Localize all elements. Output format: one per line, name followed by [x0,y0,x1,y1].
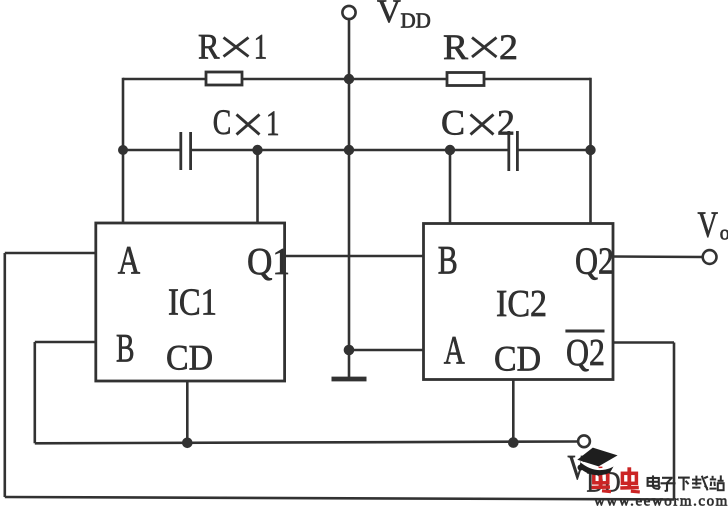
wire Q1 to B [285,255,424,258]
svg-text:2: 2 [499,27,518,67]
wire vertical to IC1 top (x=257) [256,150,259,223]
svg-text:B: B [116,326,135,371]
junction dot above ground [344,345,355,356]
svg-text:IC2: IC2 [496,283,547,325]
ground [332,377,367,382]
resistor RX2 [447,73,484,86]
svg-text:V: V [698,205,719,246]
junction dot cap rail at 450 [445,145,455,155]
watermark text xia (下) [678,478,690,491]
svg-text:2: 2 [497,103,515,143]
watermark chong char 2 [620,467,640,492]
wire outer right vertical [673,343,676,500]
wire B pin IC1 to left [35,341,96,344]
wire control rail [35,442,578,444]
svg-text:CD: CD [166,338,213,378]
junction dot cap rail center [344,145,354,155]
junction dot cap rail left [118,145,128,155]
pin label Q2-bar (IC2) [565,331,605,374]
watermark cap logo [577,448,617,476]
svg-text:1: 1 [254,26,267,66]
resistor RX1 [206,72,242,85]
wire ground stub [348,350,351,377]
wire inner left vertical [33,342,36,443]
label Vo [698,205,728,246]
svg-text:Q1: Q1 [247,241,290,283]
svg-text:C: C [213,102,232,142]
label C×1 [213,102,280,143]
svg-text:1: 1 [266,103,280,143]
svg-text:DD: DD [401,9,431,33]
capacitor CX1 [181,132,191,170]
wire top rail middle segment [242,78,447,81]
watermark text zhan (站) [709,475,723,490]
wire to IC2 A pin [349,349,424,352]
watermark text dian (电) [648,475,660,488]
svg-text:R: R [443,27,468,67]
svg-text:A: A [118,238,140,283]
capacitor CX2 [509,131,518,171]
label R×2 [443,27,518,67]
wire cap rail left segment [123,149,180,152]
junction dot CD1 [182,438,193,449]
wire Q2-bar to outer loop [613,341,674,344]
wire top rail right segment [484,78,591,81]
terminal VDD top [342,6,355,19]
svg-text:www.eeworm.com: www.eeworm.com [594,494,728,506]
op-amp IC1 box [96,223,285,381]
svg-text:Q2: Q2 [575,241,614,283]
wire A pin IC1 to left [5,252,96,255]
wire right vertical rail [589,78,592,224]
wire CD1 vertical [186,381,189,443]
wire CD2 vertical [512,380,515,444]
wire Q2 output [613,255,703,258]
label VDD bottom [568,448,621,499]
junction dot cap rail right [585,145,595,155]
op-amp IC2 box [424,224,614,380]
watermark chong char 1 [592,467,612,492]
svg-text:C: C [441,103,465,143]
terminal VDD bottom [578,435,590,447]
wire cap rail right segment [518,149,590,152]
junction dot VDD/top rail [344,74,354,84]
wire center vertical [348,79,351,350]
svg-text:Q2: Q2 [566,332,605,374]
svg-text:B: B [438,238,458,283]
junction dot cap rail at 257 [252,145,262,155]
wire VDD vertical [348,20,351,80]
terminal Vo [703,250,717,264]
svg-text:V: V [377,0,401,30]
label R×1 [198,26,267,66]
junction dot CD2 [508,437,519,448]
wire left vertical rail [122,78,125,223]
wire vertical to IC2 top (x=450) [449,150,452,224]
svg-text:IC1: IC1 [168,282,217,324]
watermark text zai (载) [692,476,708,491]
wire top rail left segment [123,78,206,81]
wire outer bottom rail [5,497,674,500]
wire outer left vertical [4,253,7,497]
svg-text:R: R [198,26,220,66]
wire cap rail middle segment [192,149,508,152]
svg-text:o: o [720,223,728,245]
svg-text:CD: CD [494,339,541,379]
svg-text:A: A [444,328,465,373]
label VDD top [377,0,431,33]
label C×2 [441,103,515,143]
watermark text zi (子) [661,478,676,491]
